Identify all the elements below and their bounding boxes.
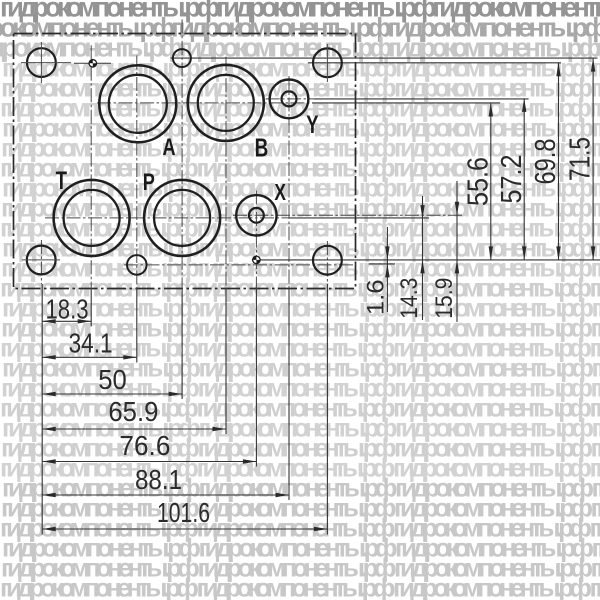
port label T xyxy=(56,166,68,194)
svg-text:18.3: 18.3 xyxy=(46,293,89,324)
datum row line through bottom holes and dot xyxy=(252,259,600,261)
left bottom extension column xyxy=(40,240,43,535)
plate outline dashed rectangle xyxy=(14,34,356,289)
port T circles xyxy=(54,180,130,256)
port label B xyxy=(255,134,269,162)
dimension 65.9 horizontal xyxy=(42,396,226,431)
top right mounting hole xyxy=(313,44,342,82)
centerline column through port X and bottom dot xyxy=(255,191,257,467)
centerline column through top dot and port T xyxy=(90,45,92,326)
dimension 55.6 vertical xyxy=(462,103,494,260)
top locating pin dot xyxy=(74,59,111,68)
port B circles xyxy=(188,65,264,141)
svg-text:A: A xyxy=(162,132,175,160)
centerline column through port A and bottom small hole xyxy=(136,56,138,363)
centerline column through port Y xyxy=(288,76,290,500)
svg-text:101.6: 101.6 xyxy=(157,497,210,528)
dimension 69.8 vertical xyxy=(530,63,562,260)
svg-text:1.6: 1.6 xyxy=(363,279,390,315)
svg-text:гидрокомпоненты.рф гидрокомпон: гидрокомпоненты.рф гидрокомпоненты.рф ги… xyxy=(0,573,600,600)
dimension 18.3 horizontal xyxy=(42,293,91,324)
svg-text:76.6: 76.6 xyxy=(119,430,170,461)
svg-text:14.3: 14.3 xyxy=(396,278,423,319)
row line 15.9 through port X xyxy=(233,214,463,216)
svg-text:71.5: 71.5 xyxy=(565,137,597,181)
svg-text:34.1: 34.1 xyxy=(69,328,113,359)
svg-text:50: 50 xyxy=(98,364,127,395)
dimension 71.5 vertical xyxy=(565,58,597,260)
svg-text:Y: Y xyxy=(306,110,319,138)
port Y circles xyxy=(270,80,309,119)
dimension 76.6 horizontal xyxy=(42,430,256,464)
row line 1.6 through bottom small hole xyxy=(124,264,395,265)
bottom small hole xyxy=(127,255,147,275)
svg-text:55.6: 55.6 xyxy=(462,157,494,206)
svg-text:57.2: 57.2 xyxy=(496,155,528,204)
row line 71.5 through top small hole xyxy=(171,57,598,59)
centerline column through port B xyxy=(225,57,227,434)
port P circles xyxy=(144,180,220,256)
bottom locating pin dot xyxy=(252,256,261,265)
port A circles xyxy=(99,65,176,142)
top left mounting hole xyxy=(21,42,71,83)
svg-text:15.9: 15.9 xyxy=(431,278,458,319)
dimension 15.9 vertical xyxy=(431,181,459,322)
row line 55.6 through ports A and B xyxy=(97,102,500,104)
port label Y xyxy=(306,110,319,138)
row line 14.3 through ports T and P xyxy=(45,217,429,219)
centerline column through top small hole and port P xyxy=(181,19,183,399)
svg-text:B: B xyxy=(255,134,269,162)
dimension 14.3 vertical xyxy=(396,196,425,320)
dimension 101.6 horizontal xyxy=(42,497,327,531)
svg-text:P: P xyxy=(143,167,155,195)
port label X xyxy=(274,180,286,206)
row line 69.8 through top right hole xyxy=(308,62,561,64)
port X circles xyxy=(236,195,276,235)
row line 57.2 through port Y xyxy=(266,98,529,100)
svg-text:88.1: 88.1 xyxy=(135,464,182,495)
dimension 57.2 vertical xyxy=(496,98,528,260)
dimension 50 horizontal xyxy=(42,364,182,396)
svg-text:69.8: 69.8 xyxy=(530,139,562,185)
svg-text:65.9: 65.9 xyxy=(108,396,158,427)
bottom right mounting hole xyxy=(313,246,342,275)
bottom left mounting hole xyxy=(22,246,60,275)
dimension 34.1 horizontal xyxy=(42,328,137,360)
dimension 1.6 vertical xyxy=(363,227,390,315)
port label A xyxy=(162,132,175,160)
right bottom extension column xyxy=(326,241,328,535)
svg-text:X: X xyxy=(274,180,286,206)
top small hole xyxy=(173,49,191,67)
svg-text:T: T xyxy=(56,166,68,194)
dimension 88.1 horizontal xyxy=(42,464,289,497)
port label P xyxy=(143,167,155,195)
